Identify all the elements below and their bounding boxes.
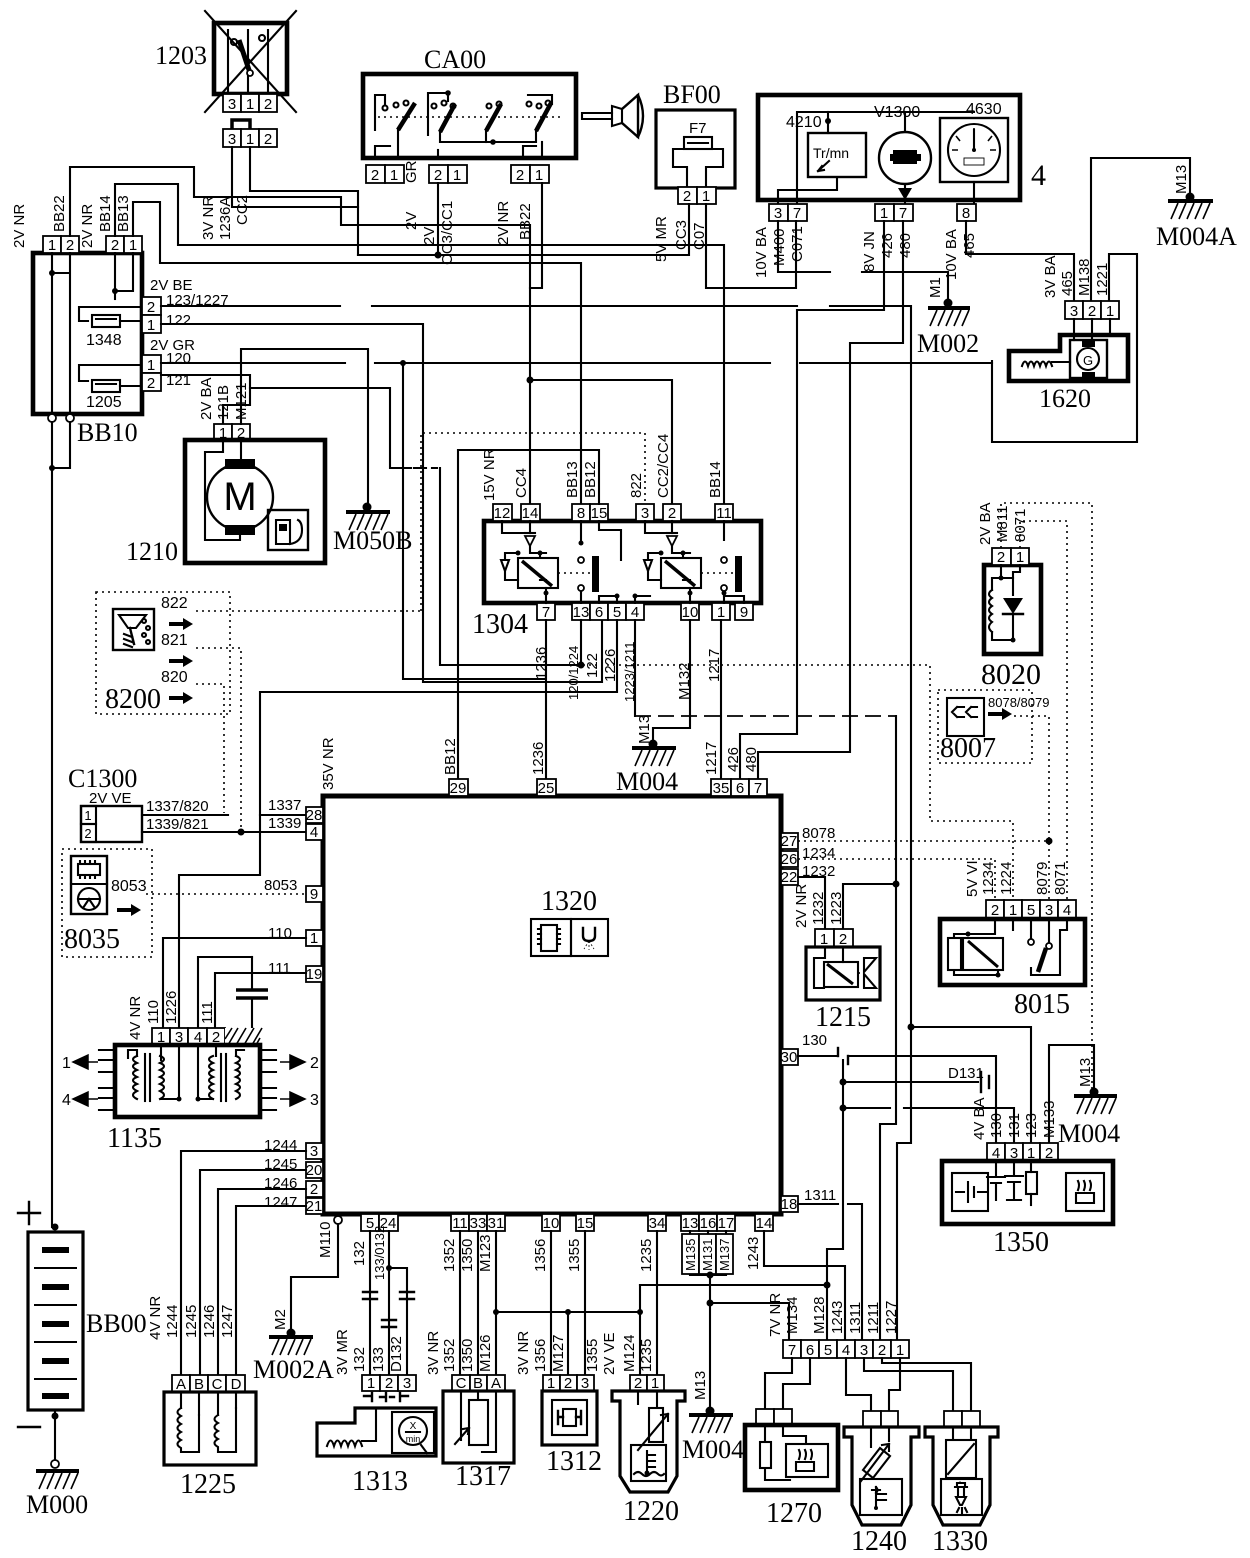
- svg-text:M138: M138: [1076, 258, 1093, 296]
- svg-text:1356: 1356: [532, 1239, 549, 1272]
- svg-text:14: 14: [756, 1215, 773, 1232]
- svg-text:2V VE: 2V VE: [89, 790, 132, 807]
- svg-text:22: 22: [781, 869, 798, 886]
- svg-text:4V NR: 4V NR: [147, 1296, 164, 1340]
- svg-text:7V NR: 7V NR: [767, 1293, 784, 1337]
- svg-text:1: 1: [147, 317, 155, 334]
- svg-text:2: 2: [147, 375, 155, 392]
- svg-text:130: 130: [988, 1113, 1005, 1138]
- svg-text:2: 2: [668, 505, 676, 522]
- wire 1355 from ECU pin 15 to 1312 pin 3: [584, 1231, 586, 1375]
- svg-text:3: 3: [310, 1143, 318, 1160]
- svg-text:8V JN: 8V JN: [861, 231, 878, 272]
- svg-text:2: 2: [147, 299, 155, 316]
- wire 121 from BB10 pin 2 staircase toward 1304 pin 13: [161, 375, 581, 665]
- motor icon V1300: [874, 104, 931, 204]
- svg-text:BB13: BB13: [115, 195, 132, 232]
- connector 1620 pins 3|2|1: [1042, 255, 1119, 320]
- svg-text:M1: M1: [927, 277, 944, 298]
- wire CC3/CC1 from CA00 conn2 pin 2: [437, 183, 439, 255]
- svg-text:2: 2: [434, 167, 442, 184]
- dashed wire 1223/1211 from 1304 pin 4: [634, 620, 636, 716]
- svg-text:1356: 1356: [532, 1339, 549, 1372]
- svg-text:1243: 1243: [745, 1237, 762, 1270]
- svg-text:M127: M127: [550, 1334, 567, 1372]
- wire M134 branch to connector pin 7: [710, 1303, 789, 1340]
- dotted wire 8078 from ECU pin 27: [798, 840, 1049, 842]
- connector 4 pins 3|7: [753, 204, 807, 278]
- svg-text:2: 2: [878, 1342, 886, 1359]
- wire M132 from 1304 pin 10 to ground M004: [653, 620, 690, 744]
- component 1330 (injector): [925, 1411, 998, 1557]
- component 1620 (oil pressure/level gauge): [1009, 319, 1128, 413]
- svg-text:132: 132: [351, 1347, 368, 1372]
- svg-text:1225: 1225: [180, 1469, 236, 1500]
- wire link CC4 to 1304 pin 2 (CC2/CC4): [530, 380, 672, 504]
- svg-text:1215: 1215: [815, 1002, 871, 1033]
- wire 121B from 1210 pin 1 to 121 staircase: [223, 388, 250, 424]
- svg-text:15V NR: 15V NR: [481, 448, 498, 501]
- connector 4 pins 1|7: [861, 204, 914, 272]
- wire BB22 from CA00 conn3 pin1 to CC4 vertical: [530, 183, 542, 288]
- svg-text:M004: M004: [616, 767, 678, 796]
- component 8020 (resistor+diode variant): [977, 502, 1041, 691]
- bus 122 from BB10 pin 1 to 1304 pin 6: [161, 324, 602, 682]
- svg-text:33: 33: [470, 1215, 487, 1232]
- wire 110 from ECU pin 1 to 1135 pin 1: [163, 938, 306, 1028]
- svg-text:BB12: BB12: [582, 461, 599, 498]
- svg-text:BB13: BB13: [564, 461, 581, 498]
- ground M002A: [253, 1309, 334, 1384]
- component 1317 (throttle potentiometer): [443, 1391, 514, 1492]
- svg-text:111: 111: [268, 960, 291, 977]
- wire CC3/CC1 bus (2V GR) to BF00: [358, 204, 689, 255]
- svg-text:120: 120: [166, 350, 191, 367]
- svg-text:8020: 8020: [981, 658, 1041, 691]
- svg-text:M2: M2: [272, 1309, 289, 1330]
- 1135 left output arrows 1 and 4: [62, 1050, 115, 1110]
- svg-text:1: 1: [1009, 902, 1017, 919]
- svg-text:820: 820: [161, 669, 188, 686]
- connector C1300: [68, 764, 142, 842]
- svg-text:1243: 1243: [829, 1301, 846, 1334]
- svg-text:3: 3: [228, 131, 236, 148]
- svg-text:1304: 1304: [472, 609, 528, 640]
- svg-text:1355: 1355: [584, 1339, 601, 1372]
- svg-text:BB10: BB10: [77, 418, 138, 447]
- component CA00 (ignition switch): [363, 45, 576, 158]
- svg-text:480: 480: [897, 233, 914, 258]
- svg-text:5: 5: [613, 604, 621, 621]
- wire 426 from cluster pin 1 to ECU pin 6: [740, 221, 884, 779]
- svg-text:1217: 1217: [703, 742, 720, 775]
- svg-text:BB22: BB22: [517, 203, 534, 240]
- svg-text:2: 2: [683, 188, 691, 205]
- svg-text:11: 11: [716, 505, 732, 522]
- svg-text:132: 132: [351, 1241, 368, 1266]
- svg-text:6: 6: [736, 780, 744, 797]
- component 8015 (relay variant): [940, 919, 1085, 1020]
- svg-text:2V BA: 2V BA: [198, 377, 215, 420]
- BB10 output pins 2/1 (2V BE 123/1227,122): [142, 277, 229, 334]
- svg-text:13: 13: [682, 1215, 699, 1232]
- svg-text:M13: M13: [1077, 1058, 1094, 1087]
- svg-text:1247: 1247: [219, 1305, 236, 1338]
- svg-text:122: 122: [584, 653, 601, 678]
- wire 123 branch from 123/1227 vertical to 1350 pin 1: [908, 1024, 915, 1031]
- svg-text:1337: 1337: [268, 797, 301, 814]
- key/horn icon right of CA00: [582, 95, 643, 137]
- svg-text:1: 1: [880, 205, 888, 222]
- svg-text:123: 123: [1023, 1113, 1040, 1138]
- svg-text:4V NR: 4V NR: [127, 996, 144, 1040]
- svg-text:M13: M13: [692, 1371, 709, 1400]
- svg-text:8: 8: [577, 505, 585, 522]
- svg-text:3V NR: 3V NR: [515, 1331, 532, 1375]
- connector 4 pin 8: [943, 204, 978, 280]
- svg-text:GR: GR: [403, 160, 420, 183]
- svg-text:M: M: [223, 475, 256, 519]
- svg-text:1234: 1234: [802, 845, 835, 862]
- svg-text:1236: 1236: [530, 742, 547, 775]
- component 8007 (dotted variant box with arrow): [938, 690, 1049, 764]
- svg-text:1240: 1240: [851, 1526, 907, 1557]
- 1304 bottom pins 7 13 6 5 4 10 1 9: [533, 603, 753, 702]
- component BF00 (fuse box F7): [656, 80, 735, 188]
- wires 1244-1247 from ECU pins 3,20,2,21 to 1225: [181, 1151, 306, 1375]
- svg-text:1205: 1205: [86, 394, 122, 411]
- component 1304 (double relay): [472, 521, 761, 640]
- svg-text:2: 2: [991, 902, 999, 919]
- svg-text:1: 1: [367, 1375, 375, 1392]
- svg-text:2: 2: [385, 1375, 393, 1392]
- svg-text:35: 35: [713, 780, 730, 797]
- component 4 (instrument cluster): [758, 95, 1046, 204]
- connector 1317 pins C|B|A: [452, 1375, 505, 1392]
- BB10 internal wiring and fuse 1348: [49, 253, 143, 414]
- svg-text:28: 28: [306, 807, 323, 824]
- svg-text:34: 34: [649, 1215, 666, 1232]
- wires from strip down to 1270 1240 1330: [765, 1358, 792, 1409]
- svg-text:2: 2: [997, 549, 1005, 566]
- svg-text:21: 21: [306, 1198, 323, 1215]
- component 8200 (injectors, dotted variant box): [96, 592, 230, 715]
- connector 1350 pins 4|3|1|2: [971, 1097, 1058, 1162]
- svg-text:2: 2: [84, 826, 91, 841]
- svg-text:BB12: BB12: [442, 738, 459, 775]
- svg-text:1350: 1350: [459, 1239, 476, 1272]
- svg-text:4: 4: [1031, 159, 1046, 192]
- svg-text:8035: 8035: [64, 924, 120, 955]
- wire 1350 from ECU pin 33 to 1317 pin B: [477, 1231, 479, 1375]
- connector 1312 pins 1|2|3: [543, 1375, 594, 1392]
- svg-text:4: 4: [631, 604, 639, 621]
- wire 465 from pin 8 to 1620 pin 3: [966, 221, 1074, 301]
- ground M002: [917, 277, 979, 358]
- wire M400 from pin 3 to ground M002: [778, 221, 948, 303]
- svg-text:7: 7: [899, 205, 907, 222]
- shield hatch on 1135 connector: [225, 1028, 262, 1045]
- wire 120 branch down to 1236 line: [403, 363, 544, 679]
- svg-text:1236: 1236: [533, 647, 550, 680]
- svg-text:15: 15: [577, 1215, 594, 1232]
- svg-text:1: 1: [896, 1342, 904, 1359]
- ground M004 (right): [1058, 1058, 1120, 1148]
- svg-text:20: 20: [306, 1162, 323, 1179]
- connector BB10 2|1 (2V NR BB14 BB13): [79, 195, 142, 254]
- svg-text:Tr/mn: Tr/mn: [813, 145, 849, 161]
- svg-text:1337/820: 1337/820: [146, 798, 209, 815]
- svg-text:1234: 1234: [980, 862, 997, 895]
- svg-text:7: 7: [542, 604, 550, 621]
- svg-text:17: 17: [718, 1215, 735, 1232]
- connector CA00 2|1 (CC3/CC1): [421, 165, 467, 265]
- svg-text:1: 1: [1016, 549, 1024, 566]
- connector BB10 1|2 (2V NR BB22): [11, 195, 79, 254]
- svg-text:2V: 2V: [403, 212, 420, 230]
- svg-text:M137: M137: [717, 1238, 732, 1271]
- svg-text:4: 4: [62, 1092, 71, 1109]
- wire BB13 staircase from BB10 to 1304 pin 8: [133, 202, 581, 504]
- wire M123/M126 from ECU pin 31 to 1317 pin A: [495, 1231, 497, 1375]
- svg-text:3V NR: 3V NR: [200, 196, 217, 240]
- svg-text:2V: 2V: [421, 227, 438, 245]
- ground M050B: [333, 503, 412, 556]
- svg-text:1246: 1246: [201, 1305, 218, 1338]
- svg-text:110: 110: [145, 1000, 162, 1024]
- connector 1215 pins 1|2: [793, 884, 853, 948]
- wire 1226 from 1304 pin 5 to 1135 pin 3: [179, 620, 617, 1028]
- svg-text:9: 9: [310, 886, 318, 903]
- svg-text:BB00: BB00: [86, 1309, 147, 1338]
- svg-text:7: 7: [754, 780, 762, 797]
- dotted wire 8079 from 8007 arrow to 8015 pin 3: [1014, 716, 1049, 900]
- svg-text:M13: M13: [636, 715, 653, 744]
- svg-text:1339/821: 1339/821: [146, 816, 209, 833]
- svg-text:BB14: BB14: [97, 195, 114, 232]
- wire 1223 branch to 1215 pin 2: [893, 881, 900, 888]
- M13 wire down to ground M004 bottom: [709, 1275, 711, 1411]
- svg-text:2: 2: [66, 237, 74, 254]
- wire 1243 from ECU pin 14 to connector pin 4: [764, 1231, 845, 1340]
- svg-text:8071: 8071: [1052, 862, 1069, 895]
- junction bus M123 M127 M124: [496, 1311, 640, 1313]
- svg-text:4: 4: [842, 1342, 850, 1359]
- svg-text:1247: 1247: [264, 1194, 297, 1211]
- component 8035 (ECU/steering variant, dotted box): [62, 849, 152, 957]
- svg-text:1: 1: [702, 188, 710, 205]
- wire BB14 staircase from BB10 to 1304 pin 11: [115, 184, 724, 504]
- svg-text:1320: 1320: [541, 886, 597, 917]
- svg-text:M050B: M050B: [333, 526, 412, 555]
- dotted wire 1224 to 8015 pin 1: [583, 665, 1013, 900]
- svg-text:1: 1: [535, 167, 543, 184]
- connector CA00 2|1 (2V GR): [366, 160, 420, 230]
- svg-text:G: G: [1083, 353, 1093, 368]
- wire BB22 staircase from BB10 pin2 to CA00: [70, 167, 530, 504]
- connector 1225 pins A|B|C|D: [172, 1375, 245, 1393]
- svg-text:1: 1: [390, 167, 398, 184]
- svg-text:D131: D131: [948, 1065, 984, 1082]
- svg-text:1210: 1210: [126, 537, 178, 566]
- svg-text:1350: 1350: [459, 1339, 476, 1372]
- svg-text:1: 1: [48, 237, 56, 254]
- speedometer 4630: [940, 101, 1008, 204]
- wire 133/D132 from ECU pin 24: [388, 1231, 390, 1375]
- wire 120/1224 from 1304 pin 13 to dotted 1224 line: [580, 620, 582, 665]
- svg-text:426: 426: [879, 233, 896, 258]
- wire BB12 from ECU pin 29 up to 1304 pin 15: [458, 450, 599, 779]
- svg-text:9: 9: [740, 604, 748, 621]
- connector 1135 pins 1|3|4|2: [127, 991, 225, 1046]
- svg-text:12: 12: [494, 505, 511, 522]
- svg-text:M000: M000: [26, 1490, 88, 1519]
- svg-text:8053: 8053: [111, 878, 147, 895]
- svg-text:M004: M004: [682, 1435, 744, 1464]
- svg-text:D132: D132: [388, 1336, 405, 1372]
- svg-text:10: 10: [682, 604, 699, 621]
- svg-text:2: 2: [1088, 303, 1096, 320]
- wire M138 from 1620 pin 2 to M004A: [1091, 158, 1190, 301]
- svg-text:8053: 8053: [264, 877, 297, 894]
- svg-text:2: 2: [516, 167, 524, 184]
- svg-text:122: 122: [166, 312, 191, 329]
- svg-text:8200: 8200: [105, 684, 161, 715]
- svg-text:CC2/CC4: CC2/CC4: [655, 434, 672, 498]
- svg-text:1227: 1227: [883, 1301, 900, 1334]
- svg-text:19: 19: [306, 966, 323, 983]
- dotted wire 821 from 8200 to 1339/821: [196, 648, 241, 830]
- bus 120 from BB10 pin 1 to 1620 loop: [161, 362, 992, 364]
- svg-text:4: 4: [310, 824, 318, 841]
- svg-text:8078/8079: 8078/8079: [988, 695, 1049, 710]
- wire 1221 from 1620 pin 1 via loop to 120 line: [992, 254, 1137, 442]
- svg-text:821: 821: [161, 632, 188, 649]
- svg-text:2: 2: [310, 1055, 319, 1072]
- svg-text:110: 110: [268, 925, 292, 942]
- svg-text:111: 111: [199, 1001, 216, 1024]
- svg-text:2V NR: 2V NR: [79, 204, 96, 248]
- svg-text:BB14: BB14: [707, 461, 724, 498]
- dotted wire 822 from 8200 to 1304 dotted box: [196, 610, 421, 612]
- svg-text:BF00: BF00: [663, 80, 721, 109]
- svg-text:M002A: M002A: [253, 1355, 334, 1384]
- M13 ground junction line from M124 etc to M128: [640, 1284, 827, 1286]
- component 1225 (injector bank resistors): [164, 1392, 256, 1500]
- svg-text:CA00: CA00: [424, 45, 486, 74]
- svg-text:3: 3: [774, 205, 782, 222]
- svg-text:14: 14: [522, 505, 539, 522]
- svg-text:1330: 1330: [932, 1526, 988, 1557]
- wire 1235 from ECU pin 34 to 1220 pin 1: [656, 1231, 658, 1375]
- svg-text:4V BA: 4V BA: [971, 1097, 988, 1140]
- svg-text:1: 1: [129, 237, 137, 254]
- svg-text:1312: 1312: [546, 1446, 602, 1477]
- svg-text:1: 1: [246, 96, 254, 113]
- svg-text:2V NR: 2V NR: [11, 204, 28, 248]
- svg-text:480: 480: [743, 747, 760, 772]
- svg-text:1352: 1352: [441, 1339, 458, 1372]
- connector 1313 pins 1|2|3: [362, 1375, 416, 1401]
- svg-text:1: 1: [1106, 303, 1114, 320]
- capacitor C (suppressor): [236, 988, 268, 992]
- svg-text:1350: 1350: [993, 1227, 1049, 1258]
- component 1135 (ignition coils): [107, 1045, 260, 1154]
- svg-text:M004A: M004A: [1156, 222, 1237, 251]
- battery BB00: [18, 1202, 147, 1468]
- svg-text:2V VE: 2V VE: [601, 1332, 618, 1375]
- svg-text:M126: M126: [477, 1334, 494, 1372]
- wires from BB10 bottom to battery: [48, 414, 74, 1227]
- component 1203 (crossed out fuel pump relay): [155, 11, 296, 113]
- ECU top pins 29 25 M004 35 6 7: [320, 737, 767, 797]
- 1135 right output arrows 2 and 3: [260, 1050, 319, 1110]
- svg-text:1226: 1226: [163, 991, 180, 1024]
- svg-text:1232: 1232: [810, 892, 827, 925]
- connector 8015 pins 2|1|5|3|4: [964, 860, 1076, 919]
- svg-text:18: 18: [781, 1196, 798, 1213]
- svg-text:CC4: CC4: [513, 468, 530, 498]
- svg-text:1311: 1311: [847, 1302, 864, 1334]
- svg-text:27: 27: [781, 833, 798, 850]
- svg-text:133/0132: 133/0132: [372, 1226, 387, 1280]
- 1304 top pins 12 14 8 15 3 2 11: [481, 434, 733, 522]
- svg-text:CC2: CC2: [234, 195, 251, 225]
- svg-text:3: 3: [860, 1342, 868, 1359]
- wire 111 from ECU pin 19 to 1135 pin 2: [215, 973, 306, 1028]
- svg-text:1235: 1235: [638, 1239, 655, 1272]
- svg-text:1235: 1235: [638, 1339, 655, 1372]
- svg-text:1224: 1224: [998, 862, 1015, 895]
- component 1270 (idle control): [745, 1409, 838, 1529]
- svg-text:7: 7: [788, 1342, 796, 1359]
- capacitor branch on 1135 pin 4: [198, 957, 252, 1028]
- svg-text:min: min: [406, 1434, 421, 1444]
- svg-text:1355: 1355: [566, 1239, 583, 1272]
- svg-text:3V BA: 3V BA: [1042, 255, 1059, 298]
- ground M004A: [1156, 165, 1237, 251]
- svg-text:1: 1: [62, 1055, 71, 1072]
- svg-text:2: 2: [371, 167, 379, 184]
- svg-text:6: 6: [806, 1342, 814, 1359]
- svg-text:2: 2: [264, 96, 272, 113]
- component 1312 (knock sensor): [542, 1391, 602, 1477]
- svg-text:35V NR: 35V NR: [320, 737, 337, 790]
- svg-text:2V NR: 2V NR: [793, 884, 810, 928]
- svg-text:1: 1: [84, 808, 91, 823]
- svg-text:121B: 121B: [215, 385, 232, 420]
- svg-text:10V BA: 10V BA: [753, 227, 770, 278]
- connector strip 7|6|5|4|3|2|1: [767, 1293, 909, 1359]
- svg-text:1270: 1270: [766, 1498, 822, 1529]
- svg-text:8015: 8015: [1014, 989, 1070, 1020]
- wire 1232 from ECU pin 22 to 1215 pin 1: [798, 877, 825, 928]
- svg-text:7: 7: [793, 205, 801, 222]
- wire M127 from 1312 pin 2 to ground bus: [567, 1312, 569, 1375]
- svg-text:2V BA: 2V BA: [977, 502, 994, 545]
- svg-text:1220: 1220: [623, 1496, 679, 1527]
- svg-text:M131: M131: [700, 1238, 715, 1271]
- component 1210 (fuel pump): [126, 440, 325, 566]
- svg-text:1: 1: [453, 167, 461, 184]
- svg-text:3: 3: [403, 1375, 411, 1392]
- wire 1352 from ECU pin 11 to 1317 pin C: [459, 1231, 461, 1375]
- svg-text:1313: 1313: [352, 1466, 408, 1497]
- node on 120 bus: [400, 360, 406, 366]
- svg-text:2: 2: [264, 131, 272, 148]
- svg-text:3: 3: [228, 96, 236, 113]
- connector 1210 pins 1|2: [198, 377, 250, 442]
